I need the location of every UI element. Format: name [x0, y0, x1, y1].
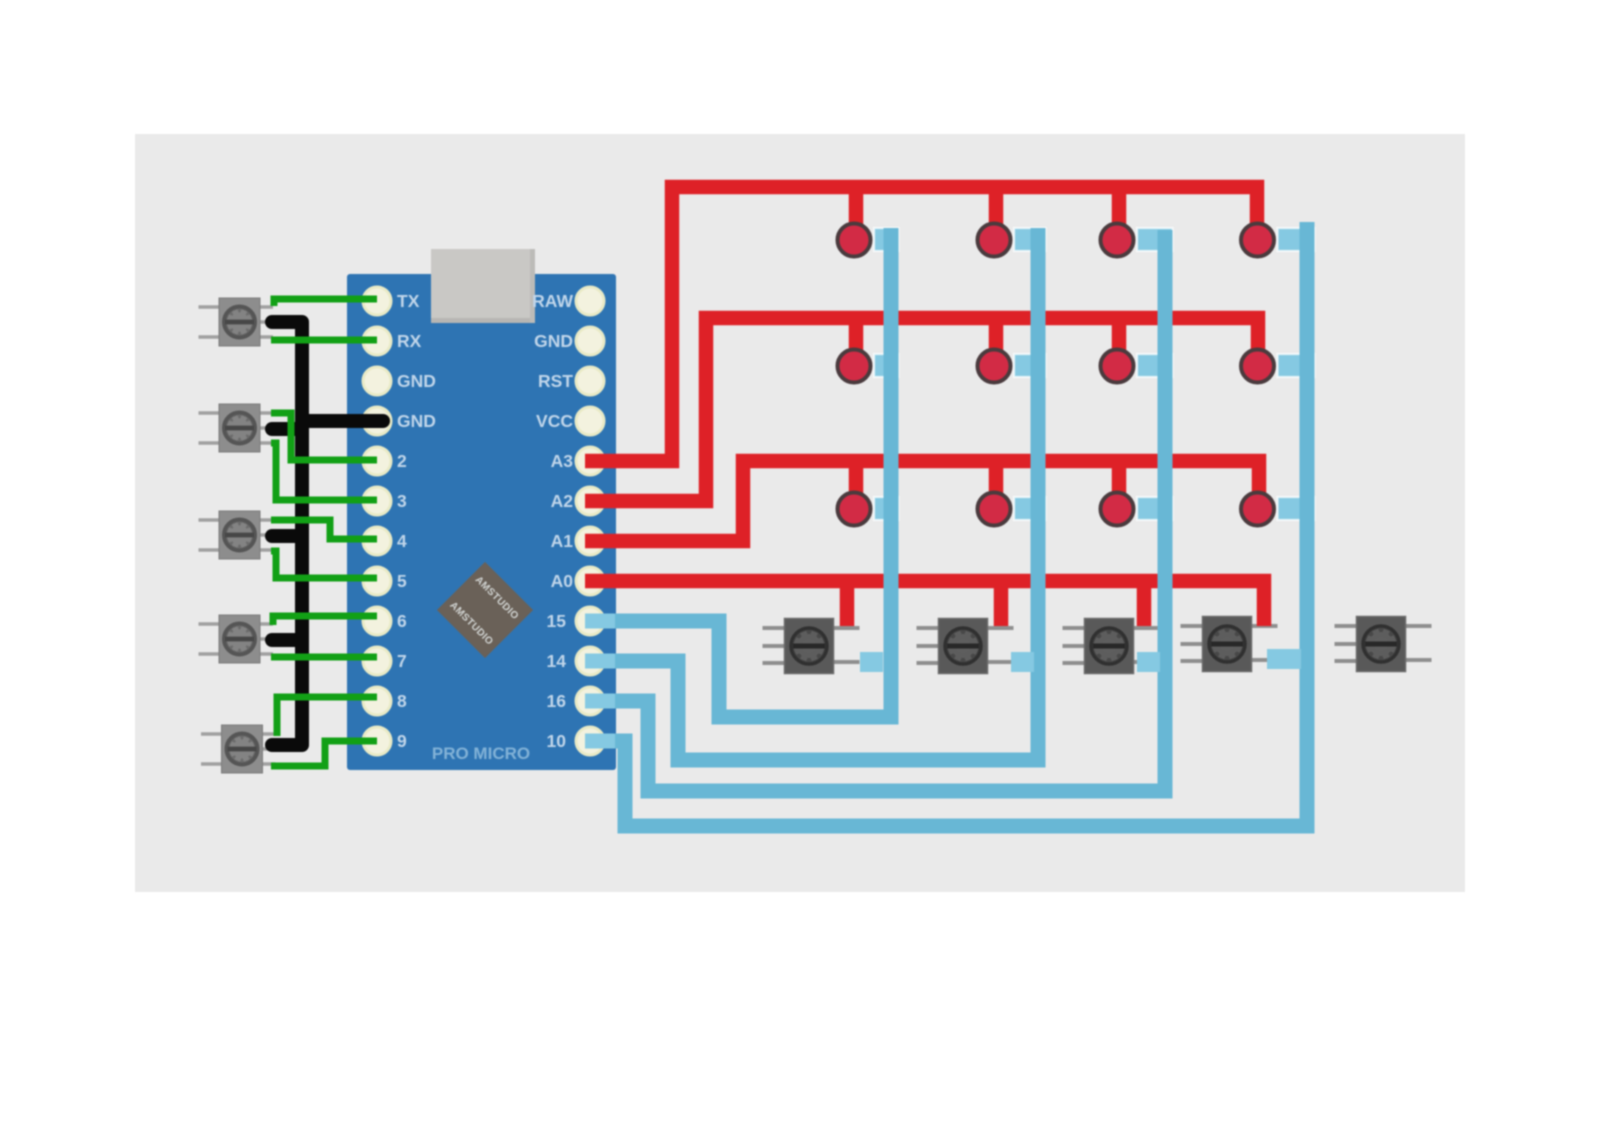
svg-text:RAW: RAW — [532, 291, 573, 311]
svg-text:4: 4 — [397, 531, 407, 551]
svg-text:RST: RST — [538, 371, 573, 391]
svg-text:15: 15 — [547, 611, 567, 631]
svg-text:5: 5 — [397, 571, 407, 591]
svg-text:6: 6 — [397, 611, 407, 631]
svg-text:PRO MICRO: PRO MICRO — [432, 744, 530, 763]
svg-text:A0: A0 — [551, 571, 574, 591]
svg-text:GND: GND — [397, 411, 436, 431]
svg-text:VCC: VCC — [536, 411, 573, 431]
svg-text:A1: A1 — [551, 531, 574, 551]
svg-text:7: 7 — [397, 651, 407, 671]
svg-text:GND: GND — [534, 331, 573, 351]
svg-text:2: 2 — [397, 451, 407, 471]
svg-text:A2: A2 — [551, 491, 574, 511]
svg-text:9: 9 — [397, 731, 407, 751]
svg-text:A3: A3 — [551, 451, 574, 471]
svg-text:3: 3 — [397, 491, 407, 511]
svg-text:8: 8 — [397, 691, 407, 711]
svg-text:RX: RX — [397, 331, 422, 351]
svg-text:14: 14 — [547, 651, 567, 671]
svg-text:TX: TX — [397, 291, 420, 311]
svg-text:GND: GND — [397, 371, 436, 391]
svg-text:10: 10 — [547, 731, 567, 751]
svg-text:16: 16 — [547, 691, 567, 711]
